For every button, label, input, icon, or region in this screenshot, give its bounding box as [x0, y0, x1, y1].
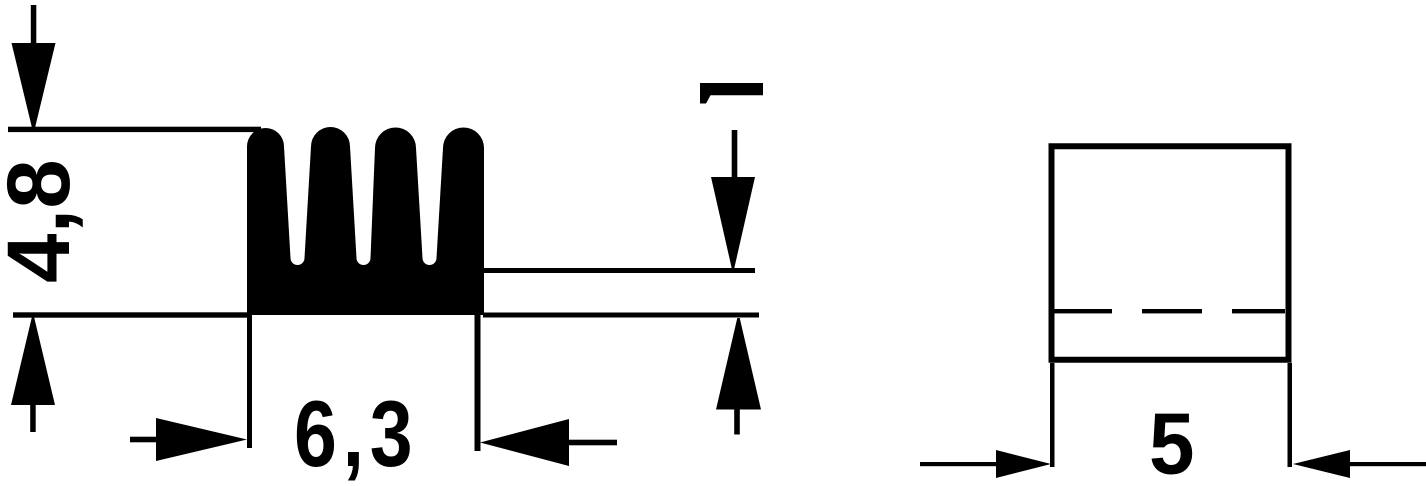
extension line top-left (y=129.5): [8, 127, 261, 132]
dimension arrow up (1) stem: [734, 409, 740, 435]
dimension arrow left (5 right) head: [1293, 450, 1350, 478]
dimension arrow left (6,3 right) head: [480, 419, 569, 466]
left extension line below square: [1050, 363, 1055, 467]
left extension line below base: [247, 315, 252, 448]
svg-text:6,3: 6,3: [294, 382, 418, 486]
dimension arrow left (5 right) tail: [1350, 462, 1426, 466]
dimension arrow up (4,8 bottom) head: [11, 318, 55, 406]
svg-text:4,8: 4,8: [0, 159, 88, 283]
dimension arrow up (1) head: [716, 318, 761, 410]
dimension arrow left (6,3 right) tail: [569, 440, 617, 446]
dimension arrow down (1) head: [711, 177, 755, 269]
dimension arrow down (1) stem: [732, 130, 738, 180]
dashed line inside square: [1054, 309, 1112, 313]
label 1 (rotated): [700, 83, 763, 104]
base thickness line right upper (y=270.5): [483, 268, 755, 273]
dimension arrow right (6,3 left) head: [156, 418, 247, 461]
base thickness line right lower (y=315): [483, 313, 759, 318]
right extension line below square: [1288, 363, 1293, 467]
extension line bottom-left (y=315): [13, 312, 250, 317]
dimension arrow right (5 left) tail: [920, 462, 996, 466]
dimension arrow down (4,8 top) head: [12, 43, 56, 129]
dimension arrow up (4,8 bottom) stem: [30, 405, 36, 432]
dimension arrow right (6,3 left) tail: [130, 437, 156, 443]
svg-text:5: 5: [1149, 395, 1194, 486]
front view square outline: [1052, 146, 1289, 360]
dimension arrow down (4,8 top) stem: [31, 5, 37, 48]
right extension line below base: [475, 313, 481, 451]
heatsink profile (side view, 4 fins): [247, 127, 484, 315]
dimension arrow right (5 left) head: [996, 450, 1051, 478]
